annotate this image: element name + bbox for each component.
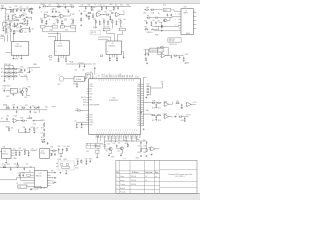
- U13 right pins: [50, 151, 52, 156]
- wire Q7: [167, 18, 170, 21]
- transistor Q2: [20, 90, 23, 93]
- wire nJ2 up: [17, 162, 19, 164]
- ground GA1: [26, 23, 28, 25]
- capacitor C21: [105, 7, 107, 10]
- resistor R27: [103, 20, 104, 24]
- power flag VR1: [162, 84, 163, 85]
- wire C3 to R3: [24, 8, 29, 10]
- svg-text:C45: C45: [120, 4, 123, 6]
- capacitor C4: [8, 15, 10, 18]
- wire ladder bottom hook: [20, 76, 27, 80]
- svg-text:R41: R41: [41, 139, 44, 141]
- wire down b11: [131, 136, 134, 141]
- node LD1: [3, 71, 6, 74]
- ground GM1: [76, 126, 78, 128]
- capacitor CR2: [146, 88, 149, 90]
- svg-text:C49: C49: [109, 10, 112, 12]
- svg-text:C47: C47: [83, 11, 86, 13]
- capacitor CJ4: [22, 174, 24, 177]
- svg-text:B: B: [96, 76, 98, 77]
- diode DJ1: [29, 167, 32, 168]
- wire out SV: [27, 92, 30, 95]
- wire MV link: [43, 121, 45, 124]
- wire DJ1 out: [32, 167, 34, 170]
- wire CS1 to U9: [6, 90, 11, 92]
- wire stub left B2: [48, 36, 55, 40]
- wire feed 2: [10, 33, 12, 42]
- svg-text:U15: U15: [163, 5, 166, 7]
- resistor RN2: [21, 107, 25, 108]
- ground G16: [150, 24, 152, 26]
- wire down b8: [110, 136, 112, 142]
- svg-text:Y1: Y1: [86, 75, 88, 77]
- resistor RH2: [28, 118, 32, 119]
- wire CM2 to U10: [82, 123, 89, 125]
- wire J1 to R30: [171, 10, 179, 11]
- U10 inner-left pin labels: [89, 84, 94, 127]
- wire A mid link: [6, 19, 15, 21]
- svg-text:R84: R84: [20, 118, 23, 120]
- svg-text:100n: 100n: [20, 67, 24, 69]
- svg-text:R91: R91: [101, 144, 104, 146]
- svg-text:1: 1: [175, 14, 176, 16]
- wire Y1 to MCU: [84, 75, 90, 79]
- ground G15: [116, 60, 118, 62]
- ground GX1: [76, 86, 78, 88]
- capacitor C16: [61, 20, 63, 23]
- ground GJ1: [30, 189, 32, 191]
- resistor RB1: [104, 144, 105, 148]
- capacitor C26: [99, 20, 101, 23]
- svg-text:R48: R48: [91, 10, 94, 12]
- resistor RR2: [157, 102, 161, 103]
- resistor R36 feedback: [160, 47, 164, 48]
- wire caps join: [149, 86, 150, 95]
- op-amp U6A: [96, 12, 102, 16]
- svg-text:VREF: VREF: [33, 64, 37, 66]
- resistor R13: [41, 19, 42, 23]
- capacitor CL2: [24, 69, 26, 72]
- svg-text:C92: C92: [113, 143, 116, 145]
- node nH1: [25, 119, 28, 122]
- capacitor C1: [1, 7, 4, 9]
- svg-text:1u: 1u: [4, 16, 6, 18]
- capacitor C15: [46, 20, 48, 23]
- svg-text:R12: R12: [15, 6, 18, 8]
- svg-text:C19: C19: [176, 114, 179, 116]
- svg-text:U4B: U4B: [57, 12, 60, 14]
- capacitor CN5 hang: [16, 110, 18, 113]
- ground G12: [107, 23, 109, 25]
- svg-text:R18: R18: [158, 120, 161, 122]
- capacitor CP1: [47, 142, 49, 145]
- wire top row link: [13, 8, 24, 10]
- U14 right pins: [47, 173, 51, 186]
- wire SB2 to U5: [117, 31, 122, 41]
- capacitor CA3: [27, 20, 29, 23]
- svg-text:10k: 10k: [9, 7, 12, 9]
- wire SB1 to U5: [107, 31, 115, 41]
- resistor RN3: [34, 107, 38, 108]
- op-amp UH1: [12, 118, 18, 122]
- svg-text:PD12: PD12: [89, 120, 93, 122]
- wire LED in2: [56, 165, 58, 167]
- resistor RA3: [6, 29, 7, 33]
- box FB4: [70, 25, 75, 28]
- svg-text:PB1: PB1: [94, 135, 96, 138]
- capacitor CRA: [140, 111, 142, 114]
- svg-text:PE7: PE7: [99, 135, 101, 138]
- svg-text:NRST: NRST: [109, 73, 111, 77]
- svg-text:R35: R35: [89, 158, 92, 160]
- U10 top pin labels: [94, 73, 140, 77]
- wire BL2 down: [96, 153, 98, 156]
- resistor R37: [173, 55, 177, 56]
- ground GH1: [24, 131, 26, 133]
- capacitor CR7: [155, 116, 157, 119]
- svg-text:RST: RST: [89, 89, 92, 91]
- node nA2: [19, 16, 22, 19]
- svg-text:R17: R17: [152, 120, 155, 122]
- wire stub left B: [48, 33, 60, 35]
- svg-text:PD4: PD4: [137, 121, 140, 123]
- svg-text:U5: U5: [111, 43, 113, 45]
- wire fb loop: [158, 47, 161, 54]
- capacitor CJ5: [53, 172, 56, 174]
- resistor RB4: [146, 148, 147, 152]
- wire ladder col1: [4, 66, 6, 80]
- svg-text:T. wiring: T. wiring: [120, 184, 125, 186]
- wire row1 out: [170, 102, 173, 105]
- svg-text:R76: R76: [28, 87, 31, 89]
- capacitor C37: [171, 56, 173, 59]
- ground G14: [109, 60, 111, 62]
- capacitor CN1: [13, 106, 15, 109]
- capacitor CR3: [146, 91, 149, 93]
- resistor R23: [81, 18, 82, 22]
- op-amp U1C: [59, 14, 65, 18]
- wire JK low: [0, 178, 32, 180]
- IC U2 body: [11, 42, 29, 56]
- wire reg in: [144, 49, 150, 51]
- svg-text:U3: U3: [59, 43, 61, 45]
- svg-text:C12: C12: [147, 92, 150, 94]
- resistor R4 feedback: [21, 15, 25, 16]
- capacitor CS1: [3, 89, 5, 92]
- svg-text:47k: 47k: [11, 128, 14, 130]
- wire top bus C: [79, 6, 131, 8]
- svg-text:R72: R72: [1, 72, 4, 74]
- IC U12 body: [2, 148, 11, 158]
- resistor RL2: [9, 68, 13, 69]
- codec IC U14 body: [34, 170, 47, 187]
- wire row2 out: [170, 116, 173, 118]
- wire feed 3: [13, 33, 15, 42]
- node nP1: [15, 149, 18, 152]
- svg-text:R78: R78: [41, 127, 44, 129]
- svg-text:10k: 10k: [48, 4, 51, 6]
- wire row3: [19, 23, 22, 25]
- wire ladder top rail: [5, 65, 14, 67]
- wire xtal top bus: [66, 63, 92, 65]
- svg-text:PC3: PC3: [117, 74, 119, 77]
- svg-text:R79: R79: [31, 127, 34, 129]
- svg-text:PF0: PF0: [89, 97, 92, 99]
- wire row1 in: [144, 102, 152, 104]
- row index numbers: [117, 176, 118, 194]
- svg-text:C72: C72: [24, 75, 27, 77]
- wire HP low2: [17, 129, 19, 133]
- svg-text:R31: R31: [71, 19, 74, 21]
- ground G1: [7, 18, 9, 20]
- box FB2: [52, 25, 57, 28]
- capacitor CX3: [94, 67, 96, 70]
- J1 right pins: [194, 12, 197, 28]
- diode DA1: [15, 25, 18, 26]
- resistor R5: [24, 18, 25, 22]
- wire CX3 down: [94, 70, 96, 75]
- svg-text:C77: C77: [40, 133, 43, 135]
- resistor RP2: [24, 151, 25, 155]
- resistor R33: [155, 17, 159, 18]
- svg-text:+5V: +5V: [184, 63, 187, 65]
- U10 left pins: [86, 98, 88, 121]
- svg-text:PC15: PC15: [104, 74, 106, 78]
- resistor R9: [29, 29, 30, 33]
- capacitor CJ3: [19, 174, 21, 177]
- svg-text:1k: 1k: [29, 115, 31, 117]
- capacitor C2: [20, 9, 22, 12]
- capacitor C34: [155, 21, 157, 24]
- svg-text:C40: C40: [51, 183, 54, 185]
- wire FB5 to U14: [30, 174, 31, 176]
- svg-text:PD10: PD10: [89, 115, 93, 117]
- transistor Q1: [19, 29, 22, 32]
- svg-text:Drawn: Drawn: [120, 176, 124, 178]
- resistor RL8: [9, 76, 13, 77]
- ground GL4: [77, 163, 79, 165]
- capacitor CX4: [76, 83, 78, 86]
- wire Q2 gnd: [22, 93, 24, 96]
- mini table frame: [86, 143, 100, 148]
- small box SB1: [103, 28, 110, 31]
- wire A bottom link: [6, 27, 11, 30]
- svg-text:U16B: U16B: [163, 114, 167, 116]
- U10 left top stubs: [87, 89, 89, 94]
- svg-text:PD11: PD11: [89, 117, 93, 119]
- wire ladder out: [18, 71, 23, 74]
- resistor R14: [57, 19, 58, 23]
- svg-text:3V3: 3V3: [97, 149, 100, 151]
- resistor RV2: [44, 123, 45, 127]
- svg-text:PE8: PE8: [101, 135, 103, 138]
- connector J3 body: [18, 185, 27, 188]
- resistor RA1: [29, 8, 33, 9]
- svg-text:1u: 1u: [94, 4, 96, 6]
- capacitor CP3: [19, 151, 21, 154]
- resistor R25: [106, 14, 110, 15]
- svg-text:R29: R29: [56, 19, 59, 21]
- ground G6: [45, 23, 47, 25]
- capacitor C18: [65, 58, 67, 61]
- wire Q1 collector: [22, 28, 30, 29]
- capacitor C14: [68, 10, 70, 13]
- title block vertical dividers: [119, 160, 160, 193]
- svg-text:VCOM: VCOM: [105, 26, 110, 28]
- capacitor C13: [55, 10, 57, 13]
- title block middle column texts: [131, 176, 157, 186]
- ground G17: [146, 62, 148, 64]
- svg-text:R93: R93: [125, 143, 128, 145]
- wire to VDD rail: [151, 85, 163, 88]
- resistor R32: [146, 17, 150, 18]
- node nB1: [46, 5, 49, 8]
- svg-text:SLO_JPN 1.0: SLO_JPN 1.0: [175, 176, 184, 178]
- ground G9: [65, 60, 67, 62]
- node nC6: [103, 13, 106, 16]
- wire Q4 emitter: [121, 150, 123, 155]
- resistor RL7: [5, 76, 9, 77]
- filter row 2: resistor RR4: [151, 115, 155, 116]
- svg-text:C64: C64: [152, 20, 155, 22]
- capacitor CL14: [89, 160, 91, 163]
- wire right of U5: [122, 52, 124, 56]
- wire LS extend: [40, 109, 47, 111]
- svg-text:5V: 5V: [155, 26, 157, 28]
- wire down b1: [96, 136, 98, 144]
- node nC1: [84, 5, 87, 8]
- wire CX2 up: [83, 63, 85, 66]
- svg-text:C55: C55: [63, 146, 66, 148]
- wire J3 to U14: [27, 186, 41, 189]
- dashed box LED: [58, 161, 74, 170]
- ground GP2: [19, 154, 21, 156]
- oscillator case circle: [59, 76, 64, 81]
- ground GM2: [81, 126, 83, 128]
- capacitor CL13: [86, 160, 88, 163]
- title block right cell dividers: [160, 170, 197, 188]
- resistor RB3: [140, 148, 141, 152]
- svg-text:5: 5: [175, 25, 176, 27]
- svg-text:HPL: HPL: [51, 170, 54, 172]
- ground GP3: [28, 155, 30, 157]
- svg-text:C65: C65: [157, 20, 160, 22]
- svg-text:2020-01: 2020-01: [131, 184, 136, 186]
- svg-text:R11: R11: [8, 27, 11, 29]
- wire D row2: [150, 17, 154, 19]
- capacitor C35: [145, 53, 147, 56]
- resistor R6: [10, 23, 11, 27]
- svg-text:EN: EN: [25, 97, 27, 99]
- node LD2: [12, 67, 15, 70]
- svg-text:R9: R9: [31, 13, 33, 15]
- svg-text:C52: C52: [102, 19, 105, 21]
- resistor RS1: [26, 88, 27, 92]
- svg-text:U8: U8: [160, 52, 162, 54]
- svg-text:22k: 22k: [24, 14, 27, 16]
- U12 right pins: [11, 150, 14, 155]
- svg-text:12 MHz: 12 MHz: [76, 79, 82, 81]
- capacitor C17: [58, 58, 60, 61]
- svg-text:C43: C43: [99, 4, 102, 6]
- node L3: [8, 75, 11, 78]
- wire UB1 in: [149, 147, 150, 149]
- node L2: [12, 71, 15, 74]
- capacitor CL1: [21, 69, 23, 72]
- svg-text:1u: 1u: [31, 69, 33, 71]
- svg-text:4k7: 4k7: [149, 148, 152, 150]
- capacitor CN2: [17, 106, 19, 109]
- wire P3: [56, 150, 57, 152]
- svg-text:C81: C81: [75, 69, 78, 71]
- resistor R35: [145, 57, 146, 61]
- ground GC1: [88, 18, 90, 20]
- capacitor C12: [52, 10, 54, 13]
- resistor R30: [145, 9, 149, 10]
- svg-text:TPS736: TPS736: [40, 153, 45, 155]
- resistor RL4: [5, 72, 9, 73]
- svg-text:10k: 10k: [117, 150, 120, 152]
- capacitor CH3: [25, 128, 27, 131]
- svg-text:C86: C86: [32, 105, 35, 107]
- svg-text:10k: 10k: [93, 7, 96, 9]
- filter row 1: resistor RR1: [151, 102, 155, 103]
- U10 right pin labels: [137, 83, 141, 127]
- svg-text:H. wiring: H. wiring: [120, 192, 126, 194]
- wire U1A out: [18, 15, 21, 17]
- capacitor CX2: [84, 65, 86, 68]
- part right LS: [52, 106, 56, 108]
- capacitor C29: [109, 57, 111, 60]
- ground GB2: [120, 155, 122, 157]
- svg-text:C9: C9: [16, 28, 18, 30]
- wire B to U3 b: [59, 34, 61, 41]
- wire P right: [31, 149, 37, 151]
- ground GL5: [85, 163, 87, 165]
- svg-text:PB14: PB14: [133, 135, 135, 139]
- svg-text:D4: D4: [29, 170, 31, 172]
- svg-text:U14: U14: [39, 173, 42, 175]
- capacitor CR6: [181, 104, 183, 107]
- wire vertical bus A: [5, 8, 7, 34]
- wire Q1 base: [13, 30, 20, 32]
- svg-text:PC13: PC13: [89, 94, 93, 96]
- wire UH1 out: [18, 120, 21, 122]
- pot arrow RV1: [58, 5, 60, 6]
- svg-text:C21: C21: [40, 4, 43, 6]
- capacitor C24: [86, 14, 88, 17]
- wire U1C out: [65, 13, 70, 16]
- mic ref box MK1: [90, 30, 101, 34]
- node nC4: [117, 5, 120, 8]
- svg-text:3V3: 3V3: [86, 151, 89, 153]
- capacitor CD2: [170, 14, 172, 17]
- resistor R22: [113, 6, 114, 10]
- wire HP in: [0, 121, 10, 123]
- svg-text:PC2: PC2: [115, 74, 117, 77]
- wire left stub C2: [98, 40, 108, 41]
- svg-text:R97: R97: [143, 152, 146, 154]
- svg-text:U13: U13: [41, 151, 44, 153]
- svg-text:1k5: 1k5: [147, 15, 150, 17]
- wire B top row: [46, 5, 70, 7]
- svg-text:R46: R46: [127, 4, 130, 6]
- op-amp UR3: [163, 114, 169, 118]
- svg-text:PC11: PC11: [137, 109, 141, 111]
- filter row2 right: capacitor CR8: [174, 116, 177, 118]
- ground G11: [99, 23, 101, 25]
- svg-text:10k: 10k: [104, 12, 107, 14]
